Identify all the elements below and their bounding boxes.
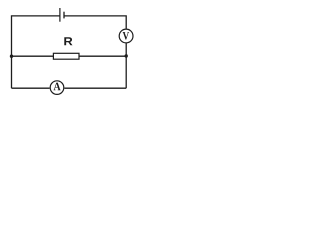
resistor R: box — [53, 53, 79, 59]
wire: top wire left segment and left side down to node A — [12, 16, 60, 56]
battery cell: short plate (right) — [63, 12, 65, 19]
wire: voltmeter bottom to node B — [125, 43, 127, 56]
wire: node B down to bottom wire — [125, 56, 127, 88]
wire: bottom left segment from ammeter to left side — [12, 87, 50, 89]
node A: junction dot on left wire — [10, 55, 13, 58]
voltmeter V: letter label — [123, 32, 130, 40]
wire: bottom right segment from right side to ammeter — [64, 87, 126, 89]
voltmeter V: circle — [119, 29, 133, 43]
ammeter A: letter label — [54, 83, 61, 91]
ammeter A: circle — [50, 81, 64, 95]
wire: middle branch from node A to resistor — [12, 55, 54, 57]
wire: resistor to node B — [79, 55, 126, 57]
node B: junction dot on right wire — [125, 54, 128, 57]
wire: node A down left side to bottom wire — [11, 56, 13, 88]
label R (resistor value label) — [64, 37, 72, 45]
battery cell: long plate (left) — [59, 8, 61, 22]
wire: top wire right segment and right side down to voltmeter — [64, 16, 126, 29]
